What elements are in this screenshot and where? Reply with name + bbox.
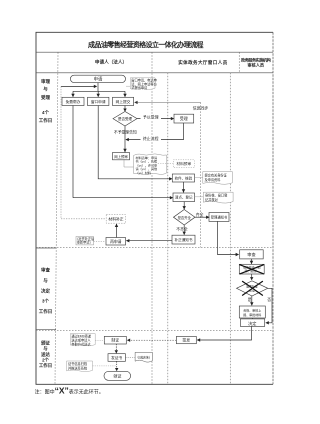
svg-text:审理: 审理 (41, 78, 50, 85)
svg-text:4个: 4个 (42, 109, 50, 115)
svg-text:再申请: 再申请 (110, 239, 122, 244)
svg-text:材料预审: 材料预审 (176, 161, 191, 166)
svg-text:是: 是 (248, 297, 252, 302)
svg-text:归档材料: 归档材料 (138, 354, 150, 359)
svg-text:终止流程: 终止流程 (143, 136, 159, 141)
svg-text:齐全: 齐全 (196, 212, 204, 217)
svg-text:及申请资料: 及申请资料 (205, 177, 222, 182)
svg-text:审查: 审查 (41, 267, 50, 274)
svg-text:签发: 签发 (182, 338, 190, 343)
svg-text:与: 与 (43, 345, 47, 352)
svg-text:自取方式送达: 自取方式送达 (71, 341, 91, 346)
svg-text:网上提交: 网上提交 (116, 99, 131, 104)
svg-text:成品油零售经营资格设立一体化办理流程: 成品油零售经营资格设立一体化办理流程 (88, 40, 204, 49)
svg-text:收件、核验: 收件、核验 (175, 175, 193, 180)
svg-text:提交有关身份证: 提交有关身份证 (205, 172, 228, 177)
svg-text:补正通知书: 补正通知书 (175, 237, 193, 242)
svg-text:工作日: 工作日 (39, 362, 52, 369)
svg-text:审查: 审查 (247, 251, 256, 258)
svg-text:受理通知书: 受理通知书 (211, 214, 228, 219)
svg-text:受理: 受理 (41, 94, 50, 101)
svg-text:与: 与 (43, 277, 48, 284)
svg-text:申请: 申请 (94, 75, 103, 82)
svg-text:重新申请）: 重新申请） (77, 240, 93, 245)
svg-text:受理: 受理 (180, 115, 188, 121)
svg-text:实体政务大厅窗口人员: 实体政务大厅窗口人员 (178, 59, 228, 66)
svg-text:3个: 3个 (42, 297, 50, 303)
svg-text:否: 否 (267, 298, 271, 302)
svg-text:免费帮办: 免费帮办 (66, 99, 81, 104)
svg-text:申请人（法人）: 申请人（法人） (95, 59, 127, 66)
svg-text:是否齐全: 是否齐全 (178, 215, 192, 220)
svg-text:合格、审核上: 合格、审核上 (243, 307, 261, 312)
svg-text:是否受理: 是否受理 (118, 116, 132, 121)
svg-text:网上预审: 网上预审 (114, 154, 128, 159)
svg-text:决定: 决定 (248, 320, 256, 327)
svg-text:不齐全: 不齐全 (176, 227, 188, 232)
svg-text:制证: 制证 (111, 338, 119, 343)
svg-text:领证: 领证 (113, 373, 122, 380)
svg-text:并推送至系统: 并推送至系统 (68, 365, 88, 370)
svg-text:记并核对: 记并核对 (205, 197, 219, 202)
svg-text:报、审批材料: 报、审批材料 (243, 312, 261, 317)
svg-text:信息同步: 信息同步 (193, 106, 209, 111)
svg-text:发证书: 发证书 (111, 355, 122, 360)
svg-text:（ys）材料: （ys）材料 (136, 170, 151, 175)
svg-text:窗口申请: 窗口申请 (91, 99, 106, 104)
svg-text:决定: 决定 (41, 288, 50, 295)
svg-text:2个: 2个 (42, 356, 49, 362)
svg-text:工作日: 工作日 (39, 308, 53, 315)
svg-text:工作日: 工作日 (39, 117, 53, 124)
svg-text:清点、登记: 清点、登记 (175, 195, 193, 200)
svg-text:身份核、窗口登: 身份核、窗口登 (205, 192, 228, 197)
svg-text:式提出申请: 式提出申请 (131, 85, 148, 90)
svg-text:与: 与 (43, 86, 48, 93)
svg-text:不予受理告知: 不予受理告知 (114, 129, 137, 134)
svg-text:予以受理: 予以受理 (143, 115, 159, 120)
svg-text:审核人员: 审核人员 (247, 62, 265, 69)
svg-text:材料补正: 材料补正 (108, 217, 123, 222)
